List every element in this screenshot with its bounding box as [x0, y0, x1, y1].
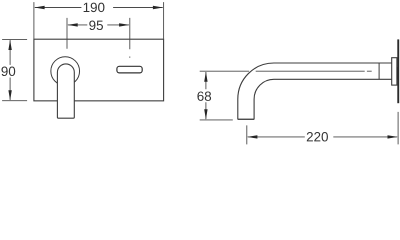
dimension 68: top extension line (tube centerline extended) — [200, 70, 249, 72]
dimension 220: dimension line — [248, 136, 398, 138]
side view: spout tube top edge with outer bend and outlet left edge — [238, 63, 392, 119]
dimension 190: extension lines — [34, 2, 164, 39]
sensor window slot — [117, 66, 142, 73]
dimension 190: text — [84, 3, 105, 12]
dimension 220: arrowheads — [247, 135, 398, 138]
side view: spout outlet bottom — [238, 118, 255, 120]
dimension 220: extension lines — [247, 112, 398, 144]
dimension 68: dimension line — [205, 72, 207, 119]
dimension 68: arrowheads — [204, 72, 207, 120]
escutcheon circle — [51, 57, 80, 86]
dimension 220: text — [307, 132, 328, 141]
side view: spout tube bottom edge with inner bend and outlet right edge — [254, 79, 392, 119]
side view: tube center line — [256, 70, 372, 72]
lever handle — [57, 64, 74, 118]
dimension 95: extension lines — [67, 18, 130, 58]
dimension 90: arrowheads — [8, 40, 11, 101]
dimension 95: dimension line — [68, 24, 129, 26]
dimension 68: text — [197, 91, 211, 100]
dimension 90: dimension line — [9, 40, 11, 100]
dimension 190: dimension line — [35, 7, 163, 9]
side view: wall flange — [392, 58, 397, 85]
dimension 90: extension lines — [2, 39, 27, 100]
side view: pipe stub between flange and wall — [396, 67, 399, 80]
side view: tube joint line — [378, 63, 380, 79]
dimension 95: arrowheads — [68, 23, 130, 26]
dimension 90: text — [1, 67, 15, 76]
front view: mounting plate rectangle — [34, 39, 164, 101]
dimension 95: text — [89, 21, 103, 30]
side view: mounting plate edge-on (dark bar) — [397, 39, 399, 103]
dimension 68: bottom extension line — [200, 119, 233, 121]
dimension 190: arrowheads — [34, 6, 163, 9]
